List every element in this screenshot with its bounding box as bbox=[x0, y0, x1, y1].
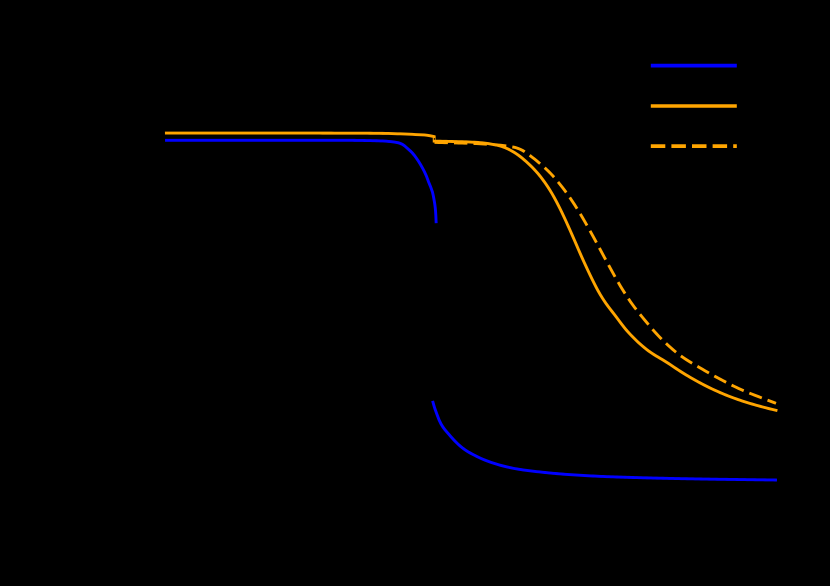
legend orange dashed sample bbox=[651, 144, 737, 148]
legend orange solid sample bbox=[651, 104, 737, 108]
legend blue solid sample bbox=[651, 64, 737, 68]
orange solid curve bbox=[166, 133, 776, 410]
blue curve upper branch bbox=[167, 140, 437, 222]
blue curve lower branch bbox=[433, 402, 776, 480]
orange dashed curve bbox=[435, 142, 777, 403]
black occluder notch on step bbox=[434, 138, 435, 140]
